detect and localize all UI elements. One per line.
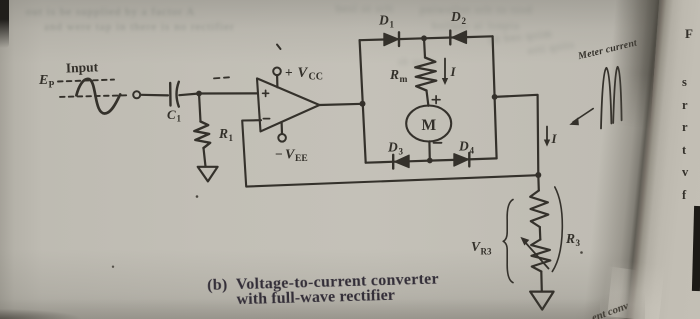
node junction Rm top (421, 35, 427, 41)
svg-text:D: D (387, 140, 398, 155)
bracket ) for R3 (552, 187, 562, 272)
-Vee supply stem and terminal (281, 122, 284, 134)
node junction op-amp output / bridge left (360, 101, 366, 107)
svg-text:R: R (389, 67, 399, 82)
resistor R1 (199, 94, 201, 122)
feedback wire from inverting input (242, 120, 538, 186)
wire capacitor to op-amp non-inverting input (179, 93, 257, 95)
bridge top rail wire (360, 36, 493, 40)
resistor Rm (424, 38, 425, 57)
wire bridge right node to R3 branch (495, 95, 539, 175)
node junction feedback / R3 top (535, 172, 541, 178)
svg-text:D: D (458, 139, 469, 154)
current arrow I (to R3) (546, 127, 548, 141)
svg-text:I: I (450, 64, 457, 79)
diode D1 (384, 33, 398, 45)
svg-text:1: 1 (177, 114, 182, 124)
motor M circle (406, 106, 451, 142)
svg-text:CC: CC (309, 72, 323, 83)
svg-text:V: V (298, 65, 309, 81)
motor - polarity (434, 142, 442, 144)
wire op-amp output to bridge left node (319, 104, 363, 105)
svg-text:3: 3 (399, 147, 404, 157)
brace { for VR3 (503, 200, 513, 283)
ground (below R1) (198, 167, 218, 182)
svg-text:m: m (400, 75, 408, 85)
wire terminal to capacitor (141, 94, 168, 97)
figure caption (207, 271, 498, 308)
annotation arrow to meter current (573, 109, 593, 122)
page fold shadow and next page (549, 0, 700, 319)
svg-text:EE: EE (295, 154, 308, 164)
svg-text:2: 2 (462, 16, 467, 26)
svg-text:−: − (275, 147, 283, 162)
+Vcc supply stem and terminal (276, 75, 278, 87)
motor + polarity (432, 96, 440, 104)
current arrow I (beside Rm) (444, 59, 446, 80)
svg-text:R3: R3 (481, 247, 492, 257)
input terminal circle (133, 91, 140, 98)
capacitor C1 (169, 83, 172, 106)
svg-text:1: 1 (229, 133, 234, 143)
bridge bottom rail wire (366, 158, 497, 162)
stray dots (196, 195, 199, 198)
ground (below R3) (530, 292, 553, 310)
svg-text:M: M (422, 117, 437, 134)
bottom-left shadow sliver (0, 305, 110, 319)
stray tick mark (277, 45, 281, 50)
svg-text:V: V (471, 239, 481, 254)
svg-text:Input: Input (66, 59, 99, 75)
svg-text:+: + (285, 65, 293, 80)
svg-text:1: 1 (390, 20, 395, 30)
node junction at R1 top (196, 91, 202, 97)
extra fold shading top right (607, 0, 659, 128)
node junction bridge right / output wire (492, 94, 498, 100)
svg-text:I: I (551, 131, 558, 146)
diode D2 (452, 31, 466, 43)
svg-text:D: D (450, 9, 461, 24)
diode D4 (454, 154, 468, 166)
bridge right vertical wire (493, 36, 497, 158)
dashed zero reference line (60, 95, 128, 97)
lighten fold gap at bottom (607, 259, 665, 319)
input sine wave source Ep (76, 79, 120, 114)
svg-text:D: D (378, 13, 389, 28)
dashed peak reference line (58, 80, 114, 82)
next page text fragments (685, 26, 693, 42)
diode D3 (395, 155, 409, 167)
node junction motor bottom (427, 158, 433, 164)
dashed remnant near op-amp (214, 77, 229, 78)
op-amp - marker (263, 118, 269, 120)
potentiometer wiper arrow (525, 242, 549, 269)
wire motor bottom to rail (428, 141, 431, 160)
top-left dark edge (0, 0, 9, 48)
bleed-through text from reverse side of page (26, 6, 195, 18)
op-amp + marker (263, 90, 269, 96)
svg-text:E: E (38, 73, 48, 88)
svg-text:C: C (167, 107, 176, 122)
meter current waveform humps (601, 68, 611, 129)
potentiometer R3 upper section (537, 175, 540, 191)
page edge highlight bottom (601, 266, 638, 319)
svg-text:P: P (49, 81, 55, 91)
bottom-right rotated cut text (590, 300, 630, 319)
op-amp U1 triangle (257, 78, 319, 131)
next page black bar (692, 206, 700, 291)
svg-text:4: 4 (470, 146, 475, 156)
bridge left vertical wire (360, 40, 366, 163)
svg-text:R: R (218, 126, 228, 141)
potentiometer R3 lower section (539, 227, 542, 240)
